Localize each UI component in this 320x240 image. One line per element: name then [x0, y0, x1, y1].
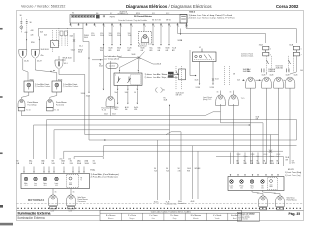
rear lamp assembly box right	[230, 174, 231, 176]
feed arrows into lamp row	[243, 79, 245, 81]
svg-text:SW: SW	[117, 50, 120, 52]
svg-text:30: 30	[30, 22, 32, 24]
svg-text:1: 1	[95, 26, 96, 28]
interruptor columns right of box	[224, 66, 226, 85]
svg-text:Gris: Gris	[152, 218, 155, 220]
svg-text:31: 31	[230, 92, 232, 94]
svg-text:1: 1	[113, 26, 114, 28]
connector ring right of relay pins	[156, 88, 158, 93]
svg-text:45-30: 45-30	[24, 60, 29, 62]
lamp H3	[58, 56, 60, 60]
svg-text:Max: Max	[63, 59, 66, 61]
E13.5 box drop wires	[199, 62, 201, 84]
relay box bottom pins with arrows	[117, 85, 119, 88]
svg-text:válida 03/2002: válida 03/2002	[238, 219, 248, 221]
svg-text:Diagramas Elétricos / Diagrama: Diagramas Elétricos / Diagramas Eléctric…	[126, 4, 212, 9]
svg-text:1: 1	[132, 26, 133, 28]
svg-text:Luminária: Luminária	[178, 202, 186, 205]
ground lamp bell left-2	[50, 92, 57, 99]
ground lamp bell left-1	[22, 92, 29, 99]
wire: T branch down from feed bus	[83, 28, 89, 41]
svg-text:1) Interr. Luz: Trás e Lâmp. P: 1) Interr. Luz: Trás e Lâmp. Painel, P/ …	[189, 14, 233, 17]
svg-text:45-1: 45-1	[64, 63, 68, 65]
svg-text:2) Faro Alto, (Con Mudanzas): 2) Faro Alto, (Con Mudanzas)	[91, 176, 119, 179]
svg-text:(Esq) TL 5: (Esq) TL 5	[203, 99, 211, 101]
bus 4 corner down to footer label	[54, 130, 170, 200]
svg-text:X50: X50	[31, 42, 34, 44]
svg-text:Iluminación Externa: Iluminación Externa	[18, 216, 45, 220]
lamp bell under relay area	[109, 61, 111, 96]
svg-text:Farol (Dir): Farol (Dir)	[56, 104, 64, 106]
svg-text:Lanterna Tras.: Lanterna Tras.	[166, 203, 178, 206]
svg-text:Veículo / Versão: 5683152: Veículo / Versão: 5683152	[21, 5, 65, 9]
svg-text:MOTORMAX: MOTORMAX	[28, 199, 45, 202]
svg-text:Rojo: Rojo	[173, 218, 177, 220]
wire: long column x89	[88, 42, 90, 92]
svg-text:S12: S12	[166, 13, 169, 15]
svg-text:45-1: 45-1	[79, 46, 83, 48]
svg-text:56b: 56b	[125, 92, 128, 94]
svg-text:31: 31	[217, 92, 219, 94]
page frame border	[17, 11, 304, 221]
footer rule	[17, 209, 304, 211]
svg-text:30-B: 30-B	[77, 163, 82, 165]
svg-text:45-37: 45-37	[37, 60, 42, 62]
pins below X6 with labels	[70, 23, 72, 26]
footer dotted coordinate strip	[18, 207, 304, 209]
svg-text:1) Farol Alto, (Com Mudanças): 1) Farol Alto, (Com Mudanças)	[91, 173, 120, 176]
svg-text:45-3: 45-3	[34, 185, 37, 187]
wire: lamp H3 to bus 5 feeder	[59, 69, 85, 135]
revision info box	[237, 212, 259, 221]
wire: junction to relay box pins	[137, 58, 140, 70]
svg-text:58-2: 58-2	[261, 188, 264, 190]
svg-text:P = Preto: P = Preto	[128, 214, 136, 217]
lamp B12	[285, 77, 295, 88]
footer dashed separator	[17, 203, 304, 205]
X6 connector sub-box right	[180, 15, 187, 24]
wire: right lamp drops	[250, 88, 252, 164]
svg-text:58-B: 58-B	[85, 163, 90, 165]
svg-text:1) Interr. Luz Alta / Baixa, L: 1) Interr. Luz Alta / Baixa, Lampejador	[145, 73, 180, 76]
switch S5 column	[52, 30, 54, 41]
svg-text:C = Cinza: C = Cinza	[149, 215, 158, 217]
svg-text:2) Interr. Luz: Techo e Lámp.: 2) Interr. Luz: Techo e Lámp. Tablero, P…	[189, 17, 236, 20]
svg-text:30: 30	[20, 15, 22, 17]
svg-text:Carroceria: Carroceria	[78, 200, 86, 203]
svg-text:1: 1	[162, 26, 163, 28]
mid lamp bell 1	[216, 95, 226, 106]
lamp row top feed stubs	[266, 72, 268, 75]
headlamp assembly box E14 left	[23, 167, 25, 172]
svg-text:30-B+: 30-B+	[154, 202, 159, 204]
relay/dimmer switch box E7	[114, 73, 142, 85]
svg-text:TL 10: TL 10	[54, 109, 59, 111]
indicator label pill	[106, 63, 118, 68]
svg-text:Negro: Negro	[129, 218, 134, 220]
lamp indicator bell small (A-50)	[139, 32, 152, 45]
svg-text:TL 5: TL 5	[241, 98, 245, 100]
svg-text:58: 58	[233, 74, 235, 76]
svg-text:X6 Central Elétrica: X6 Central Elétrica	[134, 15, 153, 18]
long wire x103 down	[102, 44, 104, 89]
left margin registration marks	[0, 28, 3, 30]
svg-text:GR GR: GR GR	[176, 94, 183, 96]
wire: indicator bell to bus 1	[109, 107, 111, 116]
svg-text:S6: S6	[96, 13, 98, 15]
svg-text:20A 20A: 20A 20A	[268, 70, 275, 73]
junction X right mesh	[269, 150, 272, 153]
svg-text:58-2: 58-2	[240, 188, 243, 190]
svg-text:58-2: 58-2	[250, 188, 253, 190]
svg-text:Cores dos Cabos / Colores de l: Cores dos Cabos / Colores de los Cables	[151, 211, 192, 214]
svg-text:7: 7	[115, 75, 116, 77]
svg-text:F6 F8: F6 F8	[110, 16, 115, 18]
svg-text:(30): (30)	[60, 159, 63, 161]
svg-text:2) Luz Máx. Delant.: 2) Luz Máx. Delant.	[63, 85, 79, 88]
wire: mid bell 1 drop to right	[221, 104, 264, 164]
wire: label area to junction	[119, 57, 140, 59]
svg-text:45-3: 45-3	[55, 185, 58, 187]
svg-text:Lan: Lan	[276, 156, 279, 158]
relay K5 double box	[60, 31, 63, 36]
bus 9 right segment	[216, 157, 284, 166]
svg-text:1: 1	[154, 26, 155, 28]
svg-text:31: 31	[274, 193, 276, 195]
svg-text:1: 1	[104, 26, 105, 28]
svg-text:58 56: 58 56	[166, 19, 171, 21]
ground bell bottom-right 2	[263, 191, 281, 196]
svg-text:20A 20A: 20A 20A	[276, 67, 284, 70]
svg-text:E13.5: E13.5	[190, 11, 196, 13]
svg-text:Freio: Freio	[240, 186, 244, 188]
svg-text:1: 1	[170, 26, 171, 28]
bus 6 from long column with merge arrow	[88, 95, 90, 140]
svg-text:Pág. 35: Pág. 35	[289, 212, 301, 216]
svg-text:Corsa 2002: Corsa 2002	[276, 4, 299, 9]
lamp pair links	[255, 79, 261, 81]
svg-text:7: 7	[301, 54, 302, 56]
svg-text:Azul: Azul	[233, 217, 237, 220]
svg-text:Luz: Luz	[34, 183, 37, 185]
wire: drops to footer labels mid	[157, 140, 159, 200]
bus 9 left segment	[74, 157, 103, 159]
wire: mid bell 2 long drop	[233, 104, 235, 164]
wire: long run to right connector S13B-2	[185, 25, 187, 27]
svg-text:S13B: S13B	[178, 40, 183, 42]
bus 5	[85, 134, 279, 136]
svg-text:E1C/R: E1C/R	[288, 169, 294, 171]
svg-text:56: 56	[134, 92, 136, 94]
bus 3	[34, 125, 250, 159]
svg-text:Luz Ind.: Luz Ind.	[109, 66, 116, 68]
svg-text:Ponto Massa: Ponto Massa	[287, 199, 297, 202]
bus 1 from left ground box	[21, 111, 220, 116]
svg-text:1: 1	[270, 48, 271, 50]
svg-text:30-B 30-B: 30-B 30-B	[41, 49, 50, 51]
svg-text:1: 1	[178, 26, 179, 28]
svg-text:M = Marrom: M = Marrom	[191, 214, 202, 217]
svg-text:Marrón: Marrón	[193, 218, 199, 220]
svg-text:1: 1	[121, 26, 122, 28]
ground bell bottom-left 1	[52, 189, 54, 195]
svg-text:2) Luz Máx. Delant.: 2) Luz Máx. Delant.	[35, 85, 51, 88]
svg-text:Iluminação Externa: Iluminação Externa	[18, 211, 52, 215]
svg-text:20A 20A: 20A 20A	[243, 70, 250, 73]
svg-text:1: 1	[145, 26, 146, 28]
svg-text:1) Lant. Tras. (Esq): 1) Lant. Tras. (Esq)	[285, 171, 302, 174]
headlamp unit box left-2	[35, 59, 57, 82]
ground bell bottom-right 1	[252, 191, 263, 196]
svg-text:1: 1	[71, 26, 72, 28]
lamp B11	[274, 77, 284, 88]
svg-text:V = Verde: V = Verde	[213, 214, 221, 217]
svg-text:45a: 45a	[41, 55, 44, 57]
mid lamp bell 2	[229, 95, 239, 106]
svg-text:Farol (Esq): Farol (Esq)	[28, 104, 37, 106]
mid bell feed stubs	[220, 91, 222, 95]
svg-text:42: 42	[199, 47, 201, 49]
svg-text:A-50 Farol: A-50 Farol	[138, 44, 147, 47]
junction node star	[138, 56, 141, 59]
svg-text:TL 10: TL 10	[102, 109, 107, 111]
switch columns far right with fuse labels	[266, 56, 268, 72]
svg-text:Blanco: Blanco	[108, 218, 114, 220]
fuse strip inside X6	[72, 15, 74, 17]
X6 internal labels	[102, 15, 104, 17]
svg-text:2) Lant. Tras. (Izq): 2) Lant. Tras. (Izq)	[285, 174, 301, 177]
svg-text:31: 31	[73, 191, 75, 193]
wire into node from left	[92, 59, 103, 61]
svg-text:B = Branco: B = Branco	[106, 214, 115, 217]
lamp B9 front right	[246, 77, 256, 88]
svg-text:45-3: 45-3	[43, 185, 46, 187]
upper stub above bus4 corner	[169, 105, 171, 130]
interruptor columns left of box	[175, 66, 177, 90]
svg-text:S9: S9	[121, 13, 123, 15]
svg-text:WS-B8: WS-B8	[195, 168, 201, 170]
svg-text:31: 31	[55, 191, 57, 193]
svg-text:S11: S11	[152, 13, 155, 15]
wire: long run to right connector S13B-1	[178, 26, 266, 43]
svg-text:Cinza: Cinza	[270, 156, 274, 158]
wire elbow right of box	[190, 50, 195, 76]
svg-text:58-B8: 58-B8	[263, 154, 267, 156]
svg-text:X1: X1	[72, 13, 74, 15]
lamp B10	[262, 77, 272, 88]
svg-text:Máx.: Máx.	[24, 183, 28, 185]
svg-text:58-B8: 58-B8	[250, 154, 254, 156]
svg-text:Caixa de Fusíveis / Caja de Fu: Caixa de Fusíveis / Caja de Fusibles	[118, 20, 147, 22]
wire: feed bus to fusebox pin	[39, 23, 84, 34]
ground bell bottom-left 2	[70, 189, 72, 195]
svg-text:Cinza: Cinza	[243, 156, 247, 158]
svg-text:Verde: Verde	[215, 218, 220, 220]
sub-box dashed right	[268, 178, 278, 190]
bus 2	[47, 120, 297, 160]
svg-text:30 15 X 31: 30 15 X 31	[152, 19, 161, 21]
short feeder stubs to rear-lamp box pins	[230, 153, 232, 165]
svg-text:58-2: 58-2	[230, 188, 233, 190]
bus 7	[104, 146, 297, 157]
svg-text:Lan: Lan	[256, 156, 259, 158]
svg-text:S7: S7	[110, 13, 112, 15]
svg-text:56a: 56a	[114, 92, 117, 94]
svg-text:7: 7	[270, 54, 271, 56]
svg-text:TL 10: TL 10	[26, 109, 31, 111]
svg-text:X50b: X50b	[30, 80, 34, 82]
svg-text:31: 31	[257, 193, 259, 195]
corrector sub-box dashed	[67, 175, 79, 188]
svg-text:R = Verm.: R = Verm.	[170, 214, 179, 217]
svg-text:1-10: 1-10	[51, 211, 54, 213]
wire colour table	[100, 210, 242, 220]
bus 4b elbow down	[166, 132, 181, 200]
svg-text:1-10: 1-10	[69, 211, 72, 213]
svg-text:58-B8: 58-B8	[237, 154, 241, 156]
svg-text:2) Interr. Diant.: 2) Interr. Diant.	[241, 54, 254, 57]
svg-text:1: 1	[301, 48, 302, 50]
svg-text:Ré: Ré	[261, 186, 263, 188]
svg-text:S2: S2	[163, 89, 165, 91]
wire drops from fusebox with labels	[103, 26, 105, 44]
svg-text:45-3: 45-3	[24, 185, 27, 187]
svg-text:Luz Testigo (Azul): Luz Testigo (Azul)	[104, 57, 119, 60]
headlamp unit box left-1	[23, 59, 28, 82]
battery feed cluster top-left	[20, 18, 22, 34]
node X50 wire	[73, 33, 75, 62]
svg-text:(58): (58)	[68, 159, 71, 161]
svg-text:58-B: 58-B	[270, 163, 275, 165]
bus 8 with junction	[64, 151, 283, 159]
svg-text:58-B8: 58-B8	[276, 154, 280, 156]
fuse and relay box X6	[70, 15, 187, 24]
